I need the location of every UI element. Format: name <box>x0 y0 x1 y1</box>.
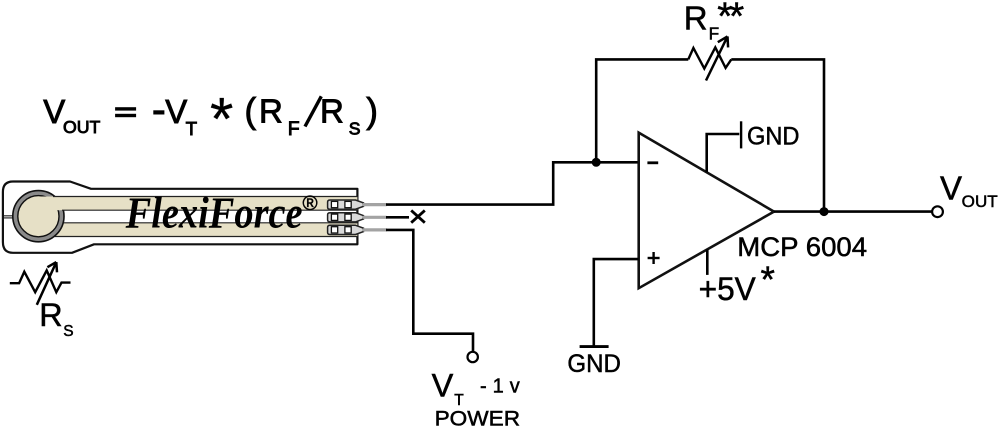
svg-text:POWER: POWER <box>435 406 520 428</box>
resistor RF zigzag <box>688 47 731 68</box>
svg-text:(: ( <box>245 92 257 131</box>
svg-text:R: R <box>320 93 344 130</box>
svg-text:V: V <box>940 169 962 206</box>
pin 1 (top) <box>328 200 387 209</box>
svg-text:OUT: OUT <box>962 193 998 211</box>
sensor bottom trace band <box>40 223 357 237</box>
svg-text:): ) <box>366 92 378 131</box>
sensor puck ring <box>13 191 64 242</box>
wire op-amp ground pin (top) <box>707 134 740 172</box>
resistor RS arrow <box>37 262 57 305</box>
svg-text:+5V: +5V <box>699 271 757 307</box>
wire top pin to inverting input <box>386 162 639 204</box>
GND top symbol bar <box>740 121 742 148</box>
formula Vout = -Vt * (RF/RS) <box>43 85 378 152</box>
sensor top trace band <box>38 197 357 211</box>
op-amp U1 triangle <box>639 133 774 289</box>
svg-text:T: T <box>186 118 198 139</box>
plus sign (non-inverting input) <box>648 257 660 259</box>
minus sign (inverting input) <box>647 161 658 164</box>
svg-text:F: F <box>288 118 300 140</box>
node output junction <box>820 207 829 216</box>
svg-text:OUT: OUT <box>63 117 101 137</box>
wire +5V supply pin <box>706 249 709 275</box>
svg-text:R: R <box>39 297 62 333</box>
output wire <box>774 210 932 213</box>
VT terminal circle <box>468 352 478 362</box>
svg-text:V: V <box>43 93 65 130</box>
svg-text:**: ** <box>717 0 744 38</box>
svg-text:S: S <box>63 323 73 340</box>
wire bottom pin to VT power terminal <box>386 230 473 352</box>
Vout terminal circle <box>932 206 943 217</box>
svg-text:GND: GND <box>567 350 621 378</box>
sensor left lead trace pair <box>4 215 14 217</box>
svg-text:R: R <box>684 0 708 36</box>
svg-text:*: * <box>210 85 233 152</box>
wire non-inverting input to ground <box>594 259 639 346</box>
GND bottom symbol bar <box>580 345 609 348</box>
svg-text:®: ® <box>303 192 318 215</box>
pin 2 (middle) <box>328 213 387 222</box>
svg-text:GND: GND <box>747 122 800 150</box>
resistor RS zigzag <box>10 270 71 292</box>
svg-text:R: R <box>259 93 283 130</box>
node junction at inverting input <box>592 158 601 167</box>
svg-text:FlexiForce: FlexiForce <box>125 188 303 237</box>
wire feedback loop <box>596 59 824 211</box>
svg-text:-1v: -1v <box>480 375 526 397</box>
svg-text:V: V <box>165 93 187 130</box>
svg-text:MCP 6004: MCP 6004 <box>737 232 867 262</box>
no-connect X on middle pin <box>386 216 409 219</box>
pin 3 (bottom) <box>328 225 387 234</box>
svg-text:V: V <box>432 368 454 404</box>
resistor RF arrow <box>706 36 728 80</box>
FlexiForce sensor body outline <box>3 182 358 253</box>
svg-text:S: S <box>349 118 361 138</box>
svg-text:*: * <box>761 259 775 300</box>
